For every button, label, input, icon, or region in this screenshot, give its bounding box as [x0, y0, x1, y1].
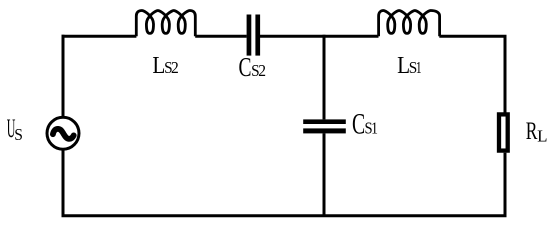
- resistor R_L (load box): [499, 114, 508, 150]
- svg-text:1: 1: [371, 119, 378, 138]
- svg-text:1: 1: [416, 59, 422, 78]
- wire: middle vertical, CS1 down to bottom rail junction: [323, 133, 326, 215]
- source U_S: circle: [47, 117, 79, 149]
- wire: middle vertical, top rail junction down to CS1: [323, 35, 326, 120]
- wire: left vertical, top rail corner down to source top: [62, 35, 65, 118]
- wire: top rail segment between CS2 and LS1, through middle node: [260, 35, 379, 38]
- wire: bottom rail: [62, 214, 507, 217]
- capacitor C_S2 (series plates): [247, 15, 261, 56]
- wire: right vertical, top-right corner down to RL top: [504, 35, 507, 113]
- wire: top rail, left segment from corner to LS2: [62, 35, 137, 38]
- wire: right vertical, RL bottom down to bottom-right corner: [504, 153, 507, 216]
- wire: left vertical, source bottom down to bottom rail: [62, 149, 65, 216]
- svg-text:R: R: [526, 117, 538, 145]
- label L_S2: [152, 52, 178, 79]
- source U_S: sine symbol: [53, 129, 74, 139]
- svg-text:C: C: [352, 109, 365, 141]
- svg-text:L: L: [537, 126, 547, 145]
- capacitor C_S1 (shunt plates): [303, 119, 346, 133]
- inductor L_S2: [136, 11, 195, 37]
- label U_S: [7, 115, 23, 144]
- svg-text:S: S: [14, 124, 23, 144]
- label C_S2: [238, 53, 266, 83]
- inductor L_S1: [379, 11, 440, 37]
- wire: top rail, right segment from LS1 to top-right corner: [439, 35, 503, 38]
- svg-text:2: 2: [171, 58, 179, 78]
- wire: top rail segment between LS2 and CS2: [195, 35, 246, 38]
- label C_S1: [352, 109, 378, 141]
- label R_L: [526, 117, 548, 146]
- label L_S1: [397, 52, 422, 79]
- svg-text:C: C: [238, 53, 251, 83]
- svg-text:2: 2: [258, 61, 266, 81]
